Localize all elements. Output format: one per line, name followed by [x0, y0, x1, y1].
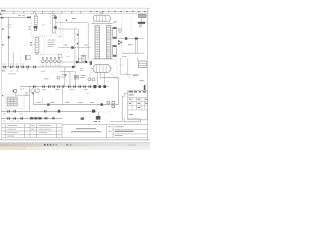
pipe run B — [56, 29, 78, 62]
manifold dark marks — [118, 40, 122, 44]
pump lower — [96, 112, 101, 120]
bus 4 — [1, 117, 62, 120]
main bus 1 — [1, 66, 76, 69]
air cooler — [138, 14, 147, 22]
inlet pipe top-left — [0, 13, 31, 18]
notes right middle — [133, 75, 144, 81]
dashed divider — [49, 13, 51, 36]
big box right — [120, 58, 140, 75]
drop on vertical x62 — [62, 88, 64, 105]
small controller box — [74, 75, 85, 79]
dashed package box top-left — [31, 13, 61, 36]
sample table — [7, 97, 17, 106]
riser pipe left 2 — [12, 52, 14, 67]
side exchanger box top — [113, 27, 117, 39]
arrows on riser pipe — [77, 34, 79, 45]
dashed box lower mid — [96, 106, 110, 112]
dashed tie line — [40, 13, 60, 15]
inline meter box — [25, 55, 30, 60]
pipe run A — [56, 18, 88, 60]
pipe run C — [74, 29, 76, 67]
main header line drum area — [58, 58, 92, 71]
long line mid lower — [34, 101, 119, 108]
note right — [128, 44, 133, 45]
valve near title block — [81, 117, 84, 119]
drum D1 support line — [92, 21, 113, 23]
note text mid-left — [8, 73, 49, 79]
pump suction drops — [43, 63, 59, 67]
status bar — [0, 143, 150, 150]
riser pipe left — [8, 18, 10, 67]
pump under T1 — [34, 26, 38, 31]
sheet top edge — [0, 7, 150, 9]
dashed sample box — [5, 94, 24, 109]
outer bottom frame line — [0, 139, 150, 141]
faint drop mid table — [42, 98, 44, 105]
instrument dotted line — [20, 55, 22, 67]
dashed battery limit line 1 — [121, 13, 123, 62]
right border — [147, 8, 149, 140]
column T1 (small, cone top) — [34, 11, 37, 24]
dashed box drum — [91, 60, 117, 78]
scattered stream labels bus3 bus4 — [3, 114, 23, 122]
instrument circles near drum outlet — [88, 78, 95, 81]
bus 2 stream labels — [20, 89, 87, 91]
small seal pot — [81, 54, 87, 62]
title block — [62, 125, 148, 138]
sample box labels — [25, 92, 28, 95]
misc faint labels — [42, 24, 123, 93]
pipe from bubbles — [15, 87, 33, 112]
right vertical pipe to bottom — [110, 93, 141, 121]
cross header line — [58, 45, 91, 49]
diagonal drain line — [111, 73, 117, 79]
zone numbers — [1, 10, 146, 13]
drum drains — [97, 72, 104, 84]
label marks beside T2 — [30, 42, 32, 46]
zone letter marks left margin — [2, 29, 4, 97]
column E1 — [95, 26, 100, 59]
dashed battery limit line 2 — [130, 13, 132, 38]
left border — [0, 8, 2, 140]
faint note rows top-left — [7, 25, 12, 28]
dashed box around T2 — [33, 37, 45, 54]
inner bottom frame line — [1, 137, 147, 139]
dashed pump skid box — [40, 55, 62, 66]
zone band bottom line — [1, 12, 149, 14]
tiny label right of columns — [113, 22, 117, 23]
vessel V1 — [52, 14, 57, 33]
short header under pump box — [60, 71, 75, 73]
pump row — [41, 57, 60, 62]
drum D1 — [93, 13, 110, 22]
small component right edge upper — [118, 28, 121, 32]
instrument dotted drop — [62, 22, 64, 47]
note text block — [48, 40, 56, 47]
zone band top line — [1, 10, 149, 12]
bus1 small drops — [4, 68, 27, 70]
column T2 — [33, 38, 39, 55]
instrument bubble row — [13, 89, 40, 96]
drum outlet line — [101, 72, 119, 104]
drops to bus2 — [65, 67, 75, 87]
label marks beside T1 — [29, 26, 31, 29]
exchanger box right — [137, 58, 146, 68]
diagonal relief line — [125, 72, 131, 78]
columns bottom line — [94, 58, 112, 60]
scattered stream labels bus1 — [2, 64, 23, 72]
twin droppers — [135, 40, 137, 54]
label under pump box — [41, 70, 45, 73]
exchanger dark bar — [138, 22, 145, 28]
pipe header right 1 — [118, 37, 144, 40]
arrow into detail box — [144, 85, 146, 90]
side exchanger box bottom — [113, 45, 117, 57]
gauge cluster mid — [57, 74, 66, 79]
small box left of seal pot — [58, 54, 61, 57]
revision table bottom left — [1, 124, 62, 138]
column E2 — [106, 26, 111, 59]
bus 3 — [1, 110, 96, 113]
bus 2 — [20, 85, 109, 88]
pipe header right 2 — [122, 52, 144, 54]
note right 2 — [122, 56, 126, 57]
detail box right — [128, 90, 148, 119]
drum D2 — [91, 65, 112, 73]
small note above title block — [94, 121, 101, 122]
